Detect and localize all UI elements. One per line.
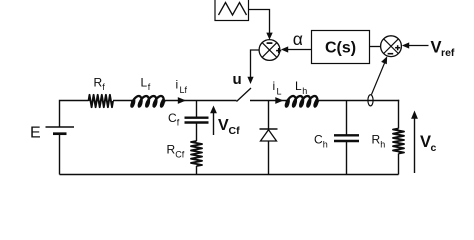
arrowhead into U1 top — [266, 33, 272, 40]
svg-text:C: C — [168, 111, 177, 125]
wire: U1 output down to switch u — [251, 50, 260, 82]
feedback sense node (ellipse) on output net — [368, 95, 373, 106]
controller block C(s) — [312, 31, 370, 64]
wire: diode anode to ground rail — [268, 141, 270, 175]
svg-text:R: R — [372, 133, 381, 147]
svg-text:L: L — [141, 76, 148, 90]
svg-text:f: f — [148, 82, 151, 92]
label plus on U1 — [276, 48, 281, 53]
inductor Lf — [131, 96, 166, 107]
wire: sawtooth block to summing junction U1 — [249, 10, 270, 38]
summing junction U1 (PWM comparator) — [259, 40, 280, 61]
svg-text:ref: ref — [441, 47, 455, 59]
svg-text:Cf: Cf — [175, 150, 184, 160]
svg-text:V: V — [420, 133, 431, 151]
wire: RCf to ground rail — [196, 166, 198, 175]
diode D branch wire — [268, 101, 270, 130]
capacitor Ch — [334, 135, 359, 141]
label Lf — [141, 76, 151, 93]
wire: right edge top (node to Rh) — [398, 100, 400, 129]
wire: Lh to output node / right edge — [316, 100, 399, 102]
capacitor Ch branch wire — [346, 101, 348, 135]
summing junction U2 (error) — [381, 36, 402, 57]
svg-text:h: h — [380, 140, 385, 150]
svg-text:c: c — [431, 142, 437, 154]
switch u blade — [237, 88, 252, 102]
label Rf — [94, 76, 106, 93]
label RCf — [167, 143, 185, 160]
svg-text:f: f — [177, 118, 180, 128]
diode D — [260, 129, 278, 141]
label Rh — [372, 133, 386, 150]
label Vc — [420, 133, 437, 154]
svg-text:Cf: Cf — [229, 125, 241, 137]
arrowhead into U2 right — [402, 42, 409, 48]
svg-text:E: E — [30, 124, 41, 141]
svg-text:u: u — [233, 71, 242, 88]
label iL — [273, 79, 282, 97]
label iLf — [176, 78, 188, 96]
svg-text:i: i — [273, 79, 276, 93]
svg-text:α: α — [293, 29, 303, 49]
wire: feedback Vc to U2 (diagonal) — [372, 60, 387, 95]
svg-text:C(s): C(s) — [325, 39, 356, 56]
wire: Rh to ground rail — [398, 154, 400, 175]
wire: Vref into U2 — [404, 45, 429, 47]
svg-text:h: h — [302, 86, 307, 96]
label VCf — [218, 117, 240, 137]
label minus on U1 — [267, 42, 273, 44]
resistor RCf — [191, 141, 202, 166]
svg-text:h: h — [323, 140, 328, 150]
resistor Rf — [89, 95, 114, 107]
wire: Rf to Lf — [113, 100, 134, 102]
wire: Ch to ground rail — [346, 142, 348, 175]
current arrow iL — [275, 97, 283, 104]
capacitor Cf — [185, 118, 209, 123]
arrowhead toward switch — [247, 77, 253, 84]
svg-text:L: L — [295, 79, 302, 93]
arrowhead into U2 bottom — [381, 56, 387, 64]
voltage source E: wire battery to node — [60, 101, 89, 128]
battery E plates — [46, 127, 75, 134]
capacitor Cf branch wire from node — [196, 101, 198, 118]
label Cf — [168, 111, 180, 128]
svg-text:V: V — [431, 39, 442, 57]
inductor Lh — [286, 96, 320, 107]
label minus on U2 — [388, 53, 394, 55]
svg-text:f: f — [102, 82, 105, 92]
svg-text:i: i — [176, 78, 179, 92]
wire: U2 output to C(s) input — [370, 46, 381, 48]
voltage arrow VCf — [210, 106, 217, 136]
arrowhead into U1 right — [281, 46, 288, 52]
wire: battery bottom to ground rail — [59, 134, 61, 175]
wire: Cf to RCf — [196, 123, 198, 141]
svg-text:C: C — [314, 133, 323, 147]
ground rail (bottom wire) — [60, 174, 399, 176]
wire: switch to Lh — [250, 100, 289, 102]
wire: C(s) output to U1 (alpha) — [283, 49, 312, 51]
sawtooth generator block — [215, 0, 249, 21]
label Lh — [295, 79, 307, 96]
voltage arrow Vc — [411, 111, 418, 174]
svg-text:Lf: Lf — [180, 85, 188, 95]
current arrow iLf — [178, 97, 186, 104]
label Vref — [431, 39, 455, 60]
svg-text:V: V — [218, 117, 229, 134]
svg-text:L: L — [277, 87, 282, 97]
svg-text:R: R — [167, 143, 176, 157]
resistor Rh — [393, 129, 404, 154]
svg-text:R: R — [94, 76, 103, 90]
label Ch — [314, 133, 328, 150]
wire: Lf to switch — [163, 100, 237, 102]
label plus on U2 — [395, 45, 400, 50]
